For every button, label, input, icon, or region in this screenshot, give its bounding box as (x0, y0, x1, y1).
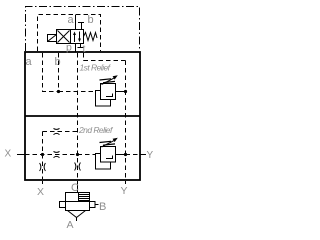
svg-text:1st Relief: 1st Relief (80, 63, 112, 73)
relief valve 2 main body (101, 147, 116, 163)
wire X column (42, 132, 44, 180)
svg-text:Y: Y (121, 185, 128, 197)
body divider line (25, 115, 140, 117)
1st relief enclosure dashed (84, 53, 126, 61)
svg-text:X: X (37, 186, 44, 198)
svg-text:A: A (67, 219, 74, 231)
orifice on t-drain column (75, 163, 81, 171)
port X bottom stub (42, 181, 44, 184)
relief valve 1 internal mark (106, 94, 113, 97)
relief valve 2 internal mark (106, 156, 113, 159)
port Y bottom stub (125, 181, 127, 184)
node junction relief1 drain (124, 90, 127, 93)
check valve spring hatches (79, 195, 89, 201)
svg-text:B: B (99, 201, 106, 213)
relief valve 1 spring and adjust arrow (100, 75, 118, 84)
orifice on vent line (54, 128, 60, 134)
svg-text:2nd Relief: 2nd Relief (78, 125, 114, 135)
wire relief2 outlet (116, 154, 126, 156)
relief valve 2 spring and adjust arrow (100, 138, 118, 147)
check valve left tab (60, 202, 66, 208)
outer dash-dot enclosure frame (26, 7, 140, 52)
check valve inner shelf line (66, 201, 90, 203)
orifice on X column (40, 163, 46, 171)
valve right position arrows (73, 32, 81, 43)
relief valve 2 offset body (96, 154, 111, 170)
wire drain column right (125, 61, 127, 180)
check valve right tab (90, 202, 96, 208)
port Y stub (140, 154, 146, 156)
port b plug (78, 23, 84, 30)
svg-text:Y: Y (147, 150, 154, 161)
check valve poppet seat (68, 211, 86, 218)
port C line (77, 181, 79, 193)
node junction relief2 drain (124, 153, 127, 156)
port a line (75, 15, 77, 30)
wire drain to Y (126, 154, 140, 156)
check valve inner wall (78, 193, 80, 202)
svg-text:b: b (88, 14, 94, 26)
wire relief1 outlet (116, 91, 126, 93)
svg-text:a: a (26, 56, 33, 68)
node junction b-pilot (57, 90, 60, 93)
valve left position crossed arrows (58, 31, 70, 43)
wire X to 2nd relief (25, 154, 101, 156)
relief valve 1 offset body (96, 91, 111, 107)
directional valve U1 body (57, 30, 84, 44)
wire vent line upper (43, 131, 78, 133)
wire port B (95, 204, 99, 206)
wire pilot line to 1st relief (59, 91, 101, 93)
port A stub (76, 218, 78, 222)
main body outline (25, 52, 140, 180)
port t plug (78, 44, 84, 48)
orifice on X-Y line (54, 151, 60, 157)
check valve body (66, 193, 90, 211)
solenoid (48, 35, 57, 42)
node junction X (41, 153, 44, 156)
port X stub (17, 154, 25, 156)
svg-text:X: X (5, 149, 12, 160)
wire t drain column (77, 53, 79, 179)
svg-text:b: b (55, 56, 61, 68)
wire a gallery dashed (43, 53, 59, 92)
port p line (75, 44, 77, 53)
svg-text:p: p (66, 42, 72, 54)
wire b gallery dashed (58, 53, 60, 92)
pilot valve dashed enclosure (38, 15, 101, 52)
relief valve 1 main body (101, 84, 116, 100)
node junction t-drain on X-Y line (76, 153, 79, 156)
spring (84, 33, 98, 41)
svg-text:a: a (68, 14, 75, 26)
